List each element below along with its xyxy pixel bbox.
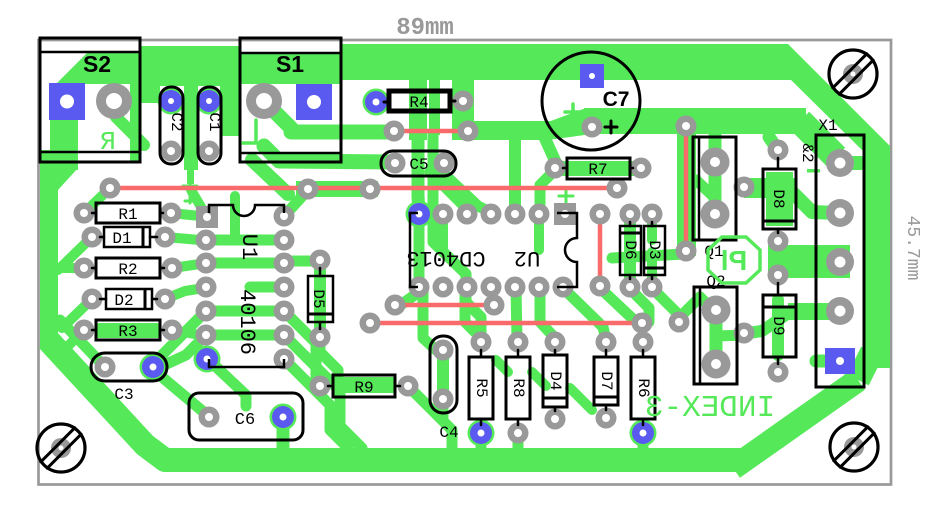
wire D3b diag [652, 288, 679, 321]
wire S2 pad diag [116, 117, 144, 145]
pad D2.2 [155, 289, 176, 310]
node via 308 [298, 179, 319, 200]
pad R4.1 [365, 91, 387, 113]
wire D9 through [772, 300, 784, 355]
wire S1 stripe C [252, 160, 288, 194]
wire C3 blue to C6 [156, 372, 206, 414]
pad R6.2 [632, 422, 654, 444]
svg-text:R8: R8 [509, 378, 527, 397]
diode D3 [644, 226, 665, 275]
pad D5.1 [310, 250, 331, 271]
capacitor C5 [381, 151, 456, 176]
resistor R4 [389, 91, 450, 111]
pad R6.1 [633, 332, 654, 353]
board outline frame [39, 40, 892, 485]
svg-text:D8: D8 [769, 189, 787, 208]
capacitor C1 [198, 87, 221, 164]
pad Q1.1 [701, 148, 730, 177]
wire band3 [584, 108, 806, 134]
wire node link [296, 181, 378, 197]
mounting screw bottom right [830, 423, 878, 471]
connector X1 [816, 135, 864, 387]
wire Q1 entry [696, 180, 715, 198]
pad U1 right 13 [274, 325, 295, 346]
svg-text:C5: C5 [409, 156, 428, 174]
pad U2 top 2 [433, 204, 454, 225]
pad Q1.3 [734, 177, 755, 198]
wire diag to C3 pad1 [60, 320, 103, 365]
wire stair3 [570, 388, 592, 410]
wire diag to R7 [543, 134, 557, 165]
wire pad halo [158, 88, 185, 115]
capacitor C3 [91, 353, 167, 381]
wire R3R to U1 [172, 330, 200, 335]
wire pad halo [630, 420, 657, 447]
svg-text:C3: C3 [114, 386, 133, 404]
wire pad halo [406, 201, 433, 228]
wire S2 to left rail chamfer [42, 168, 78, 190]
wire U1 p7R diag [284, 359, 348, 448]
wire S1 stripe B [264, 146, 390, 162]
wire Q2 pads [710, 308, 723, 366]
svg-text:R2: R2 [118, 261, 137, 279]
wire R3 through [96, 323, 160, 338]
wire S2 top pour [56, 52, 139, 84]
pad R9.1 [310, 376, 331, 397]
switch S2 [40, 38, 140, 162]
capacitor C6 [189, 393, 303, 440]
pad U1 right 11 [274, 277, 295, 298]
pad X1.1 [826, 149, 854, 177]
pad X1.4 [826, 297, 854, 325]
pad S2.2 [96, 83, 132, 119]
wire under red Rc [677, 118, 696, 256]
wire U2 int1 [438, 216, 448, 250]
svg-text:INDEX-3: INDEX-3 [645, 391, 775, 426]
pad X1.5 blue square [825, 348, 855, 374]
pad U2 pin1 [554, 203, 576, 225]
pad R3.1 [74, 320, 95, 341]
svg-text:R1: R1 [118, 206, 137, 224]
diode D7 [594, 357, 618, 405]
wire stair2 [532, 372, 546, 386]
label L mirrored [243, 120, 256, 143]
pad U1 left 6 [196, 325, 217, 346]
wire band3 jog [548, 108, 592, 140]
diode D4 [543, 355, 567, 407]
pad C4.2 [433, 389, 454, 410]
wire diag to X1 blue [858, 352, 872, 380]
wire dagger 2 [565, 189, 568, 204]
svg-text:R9: R9 [354, 379, 373, 397]
pad C1.1 [198, 90, 220, 112]
pad R9.2 [398, 376, 419, 397]
diode D1 [104, 227, 150, 247]
pad S2.1 blue square [49, 83, 85, 120]
label C7 plus black [610, 121, 613, 133]
wire via308 to U1 p8 [286, 192, 306, 214]
svg-text:D2: D2 [114, 292, 133, 310]
wire S2 pad column [50, 84, 84, 120]
wire diag to U2 p3 [430, 172, 468, 210]
wire bottom right diag [733, 380, 858, 468]
svg-text:C2: C2 [167, 112, 185, 131]
pad U1 pin7 [196, 348, 218, 370]
svg-text:R5: R5 [472, 378, 490, 397]
pad C6.2 [272, 406, 294, 428]
svg-text:S2: S2 [83, 51, 111, 77]
pad U1 left 4 [196, 277, 217, 298]
wire U1 row4 part [250, 282, 284, 293]
wire X1 pin4 diag [748, 312, 790, 333]
wire jumper Rd [395, 303, 494, 308]
pad D6.2 [620, 277, 641, 298]
pad R7.1 [545, 158, 566, 179]
node Rb left via [100, 178, 121, 199]
pad D3.2 [642, 277, 663, 298]
wire pad halo [468, 420, 495, 447]
mounting screw bottom left [37, 424, 85, 472]
wire R9R to band [408, 386, 452, 450]
pad U2 bottom 4 [481, 277, 502, 298]
wire R7L to U2 [540, 170, 555, 205]
pad R4.2 [453, 91, 474, 112]
pad U1 right 12 [274, 301, 295, 322]
wire green dash near X1 [807, 169, 820, 173]
pad U2 top 3 [457, 204, 478, 225]
svg-text:R: R [100, 127, 116, 157]
wire Q1 mid pad link [744, 178, 796, 198]
pad D9.1 [768, 265, 789, 286]
diode D2 [106, 289, 152, 309]
pad C2.1 [160, 90, 182, 112]
wire U2 pin col [414, 214, 425, 287]
wire via to Q2 [679, 297, 700, 318]
node Rc bottom via [676, 241, 697, 262]
svg-text:&2: &2 [798, 143, 816, 162]
node Rf bottom via [590, 276, 611, 297]
wire Q1 drop [709, 130, 722, 160]
wire strip neck [187, 168, 194, 184]
wire Q2 mid link [716, 335, 746, 336]
wire block above C1 C2 [160, 46, 238, 86]
resistor R2 [96, 258, 160, 278]
wire top band with chamfer and right rail [341, 44, 890, 368]
transistor Q1 [693, 137, 736, 240]
pad D1.2 [155, 227, 176, 248]
wire R5 blue drop [476, 433, 487, 450]
wire U1 p5R diag [284, 311, 316, 380]
wire D1L to rail [58, 237, 92, 270]
pad D1.1 [82, 227, 103, 248]
wire U1 notch feed [230, 196, 240, 238]
node via 370 [360, 179, 381, 200]
node Rc top via [676, 116, 697, 137]
pad C3.1 [95, 357, 116, 378]
node Rd left via [385, 295, 406, 316]
wire D3 top [647, 216, 657, 240]
wire C6 blue drop [277, 417, 290, 453]
wire jumper Rb [110, 186, 617, 191]
svg-text:D9: D9 [769, 316, 787, 335]
pad C5.1 [385, 153, 406, 174]
wire D6b diag [629, 288, 649, 322]
pad R8.2 [508, 423, 529, 444]
pad Q2.3 [734, 323, 755, 344]
mounting screw top right [829, 50, 877, 98]
wire band3 chamfer to X1 [800, 121, 836, 157]
wire B1 under C5 to U2 blue [418, 130, 419, 212]
svg-text:45.7mm: 45.7mm [902, 216, 922, 281]
wire R7 through [551, 161, 643, 176]
wire T drop to U2 [509, 138, 521, 206]
capacitor C4 [430, 336, 457, 413]
wire D8 top stub [769, 137, 778, 150]
pad D5.2 [310, 327, 331, 348]
node Ra right via [458, 121, 479, 142]
wire pad halo [363, 89, 390, 116]
wire U1 row6 [206, 330, 284, 341]
diode D9 [763, 295, 796, 357]
svg-text:C7: C7 [603, 88, 630, 111]
wire U1 p6 to C3 blue [160, 335, 206, 367]
pad U1 left 2 [196, 230, 217, 251]
wire strip between C1 C2 [184, 60, 198, 170]
wire U1 row3 [206, 258, 284, 269]
pad C2.2 [161, 141, 182, 162]
resistor R5 [469, 357, 493, 419]
wire X1 pin4 band [788, 303, 842, 320]
pad U2 bottom 7 [553, 277, 574, 298]
wire C1 strip to U1 [191, 190, 204, 212]
pad D4.2 [545, 409, 566, 430]
wire U1 row5 [206, 306, 284, 317]
pad C4.1 [433, 340, 454, 361]
pad U1 pin1 [196, 206, 218, 228]
wire R3L to diag [64, 330, 84, 350]
pad R2.1 [74, 258, 95, 279]
wire R2L to rail [58, 263, 84, 273]
pad S1.2 [246, 83, 282, 119]
pad D8.2 [768, 231, 789, 252]
node Re right via [632, 313, 653, 334]
label C7 plus green [571, 104, 575, 120]
svg-text:D6: D6 [621, 240, 639, 259]
wire D8 to X1 pin2 jog [794, 194, 838, 213]
wire Q1 pads [709, 162, 722, 214]
pad D2.1 [82, 289, 103, 310]
wire R2R to U1 [172, 264, 200, 268]
pad U1 right 14 [274, 349, 295, 370]
wire jumper Ra [394, 129, 468, 134]
pad C7.neg [582, 117, 603, 138]
wire U2 b6 to D4 [540, 288, 555, 338]
svg-text:U2: U2 [514, 245, 540, 270]
pad R5.2 [470, 422, 492, 444]
svg-text:D3: D3 [645, 240, 663, 259]
pad R1.2 [161, 203, 182, 224]
svg-text:U1: U1 [236, 234, 261, 260]
pad U1 left 3 [196, 253, 217, 274]
pad U1 right 8 [274, 206, 295, 227]
wire pad halo [194, 346, 221, 373]
wire D2L to rail [62, 299, 92, 328]
svg-text:R4: R4 [409, 94, 428, 112]
wire fat band under R4 [452, 121, 552, 140]
wire R6 blue drop [638, 433, 649, 452]
wire S1 stripe A [263, 100, 392, 132]
pad D7.1 [596, 332, 617, 353]
pad D6.1 [620, 204, 641, 225]
wire C2 top fill [162, 89, 181, 114]
svg-text:D7: D7 [597, 371, 615, 390]
wire left rail [40, 150, 58, 348]
wire cross band [612, 254, 684, 258]
svg-text:R3: R3 [118, 323, 137, 341]
pad R2.2 [162, 258, 183, 279]
resistor R7 [567, 158, 630, 179]
pad X1.3 [826, 248, 854, 276]
svg-text:89mm: 89mm [396, 15, 454, 42]
svg-text:CD4013: CD4013 [406, 245, 485, 270]
wire C5R to U2 [444, 165, 488, 211]
pad U1 left 5 [196, 301, 217, 322]
wire S2 right inner strip [130, 84, 140, 162]
pad U1 right 9 [274, 230, 295, 251]
node Rd right via [484, 295, 505, 316]
resistor R6 [631, 357, 655, 419]
pad Q2.1 [702, 296, 731, 325]
svg-text:X1: X1 [818, 117, 837, 135]
pad U1 right 10 [274, 253, 295, 274]
wire jumper Re [370, 321, 642, 326]
wire Rf pad diag [600, 288, 635, 321]
wire D5 tail [320, 337, 338, 378]
svg-text:D4: D4 [546, 371, 564, 390]
wire C4 through [437, 350, 449, 399]
wire B1 upper [409, 80, 427, 140]
wire pad halo [140, 354, 167, 381]
wire block S2-S1 upper [139, 46, 160, 103]
pad D7.2 [596, 408, 617, 429]
logo [708, 237, 760, 283]
wire D2R to U1 [165, 288, 204, 299]
wire U2 b1 to C4 [423, 288, 436, 350]
node Ra left via [384, 121, 405, 142]
svg-text:C6: C6 [235, 411, 255, 430]
wire D1R to U1 [165, 237, 200, 240]
node Rf top via [590, 204, 611, 225]
wire B2 upper [429, 80, 440, 135]
node via 679 [669, 312, 690, 333]
pad C6.1 [199, 407, 220, 428]
pad C5.2 [434, 153, 455, 174]
svg-text:40106: 40106 [234, 289, 259, 355]
wire dagger 1 [189, 181, 192, 203]
pad U2 top 4 [481, 204, 502, 225]
op-amp U2 outline [410, 213, 418, 287]
svg-text:R7: R7 [588, 161, 607, 179]
wire pad halo [196, 88, 223, 115]
wire R9 through [333, 377, 395, 393]
resistor R3 [96, 320, 160, 340]
pad D3.1 [642, 204, 663, 225]
wire U1 row3 to D5 [284, 256, 318, 267]
diode D5 [308, 276, 333, 322]
pad U2 bottom 2 [433, 277, 454, 298]
wire U2 b5 to R8 [516, 288, 517, 340]
pad R5.1 [471, 332, 492, 353]
diode D6 [620, 226, 641, 275]
capacitor C2 [160, 87, 183, 164]
wire U2 b7 to D7 [564, 289, 606, 340]
svg-text:S1: S1 [276, 51, 304, 77]
wire D5 through [314, 262, 326, 335]
pad C7.pos blue square [580, 64, 604, 88]
wire U2 b3 to R5 [465, 289, 481, 338]
pad Q1.2 [701, 200, 730, 229]
wire R8 drop [513, 433, 524, 450]
node Re left via [360, 313, 381, 334]
pad R3.2 [162, 320, 183, 341]
pad C3.2 [142, 356, 164, 378]
wire stair1 [496, 360, 508, 372]
pad U2 bottom 6 [529, 277, 550, 298]
wire pad halo [270, 404, 297, 431]
pad C1.2 [199, 141, 220, 162]
pad D9.2 [768, 362, 789, 383]
wire U2 to Rd pad [402, 287, 419, 304]
wire D8 through [766, 172, 793, 226]
switch S1 [240, 38, 341, 162]
diode D8 [763, 169, 796, 229]
pad D4.1 [545, 332, 566, 353]
pad R8.1 [508, 332, 529, 353]
wire jumper Rc [684, 126, 689, 251]
svg-text:D5: D5 [309, 289, 327, 308]
wire D8 to X1 pin3 band [768, 245, 850, 278]
resistor R1 [96, 203, 160, 223]
wire U2 int2 [534, 214, 544, 250]
wire D3 bot [647, 252, 657, 285]
pad R7.2 [631, 158, 652, 179]
wire R4 drop [452, 80, 474, 127]
pad U2 bottom 5 [505, 277, 526, 298]
pad U2 bottom 1 [409, 277, 430, 298]
resistor R8 [506, 357, 530, 419]
wire R1R to U1 [171, 213, 200, 216]
pad U2 bottom 3 [457, 277, 478, 298]
svg-text:C1: C1 [205, 112, 223, 131]
resistor R9 [333, 375, 395, 397]
capacitor C7 [542, 52, 640, 150]
svg-text:C4: C4 [439, 424, 458, 442]
node Rb right via [607, 178, 628, 199]
wire S1 top pour [241, 52, 340, 84]
wire jumper Rf [598, 214, 603, 286]
wire R1L up [84, 190, 108, 213]
wire strip right of C1 [220, 46, 240, 136]
wire X1 pin1 link [845, 156, 874, 170]
svg-text:Pl: Pl [721, 245, 747, 276]
pad X1.2 [826, 199, 854, 227]
wire C4 tail [438, 399, 449, 420]
wire D6 through [624, 216, 636, 285]
pad D8.1 [768, 140, 789, 161]
pad S1.1 blue square [296, 84, 332, 120]
pad Q2.2 [702, 350, 731, 379]
svg-text:D1: D1 [112, 230, 131, 248]
